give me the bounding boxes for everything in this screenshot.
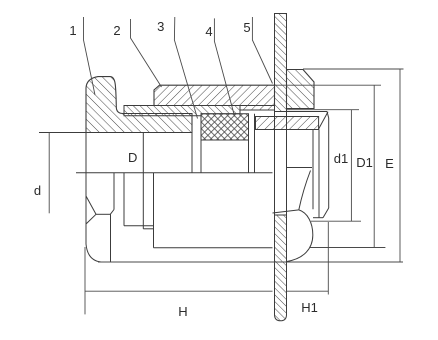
svg-text:D1: D1 [356,155,373,170]
svg-text:E: E [385,156,394,171]
svg-text:3: 3 [157,19,164,34]
svg-text:4: 4 [205,24,212,39]
svg-text:2: 2 [113,23,120,38]
svg-text:H: H [178,304,187,319]
svg-text:1: 1 [69,23,76,38]
svg-text:H1: H1 [301,300,318,315]
svg-text:D: D [128,150,137,165]
svg-text:d1: d1 [334,151,348,166]
svg-text:d: d [34,183,41,198]
svg-text:5: 5 [243,20,250,35]
